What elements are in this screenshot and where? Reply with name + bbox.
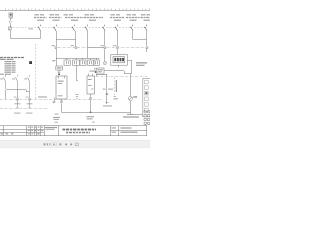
feeder 1 labels <box>35 14 40 15</box>
wire VFD down <box>90 94 92 112</box>
feeder 6 labels <box>111 14 116 15</box>
breaker QF2 <box>53 25 56 31</box>
switch Q0 <box>9 19 12 24</box>
feeder 7 labels <box>127 14 132 15</box>
feeder 4-5 labels <box>85 14 90 15</box>
lamp H2 <box>94 68 96 70</box>
bus label <box>103 105 112 106</box>
breaker QF8 <box>144 25 147 31</box>
contact column 1 <box>4 75 6 89</box>
terminal X1:4 <box>116 47 118 49</box>
terminal X1 on dash <box>55 47 148 65</box>
control box K1 <box>56 66 63 70</box>
mid labels <box>38 96 47 97</box>
aux box K5 <box>97 68 104 74</box>
left list block <box>0 58 24 75</box>
supply icon box <box>9 13 13 19</box>
center cluster <box>52 49 131 112</box>
relay K1a <box>64 60 70 65</box>
wire 107 end ticks <box>106 94 109 103</box>
motor M1 <box>128 96 132 100</box>
left columns contacts <box>0 75 47 114</box>
feeder 2 labels <box>50 14 55 15</box>
right device box <box>143 78 152 117</box>
ruler ticks <box>6 8 150 10</box>
feeder 3 labels <box>64 14 69 15</box>
contact column 3 <box>28 75 30 92</box>
bottom bus <box>62 112 131 114</box>
mech linkage dashes <box>13 27 144 29</box>
terminal X1:3 <box>104 47 106 49</box>
breaker QF7 <box>130 25 133 31</box>
bottom labels <box>53 114 139 123</box>
ruler zone digits <box>9 9 147 10</box>
dark box texts <box>136 62 147 65</box>
cable arrows <box>17 101 31 108</box>
wire feeder2 down <box>56 49 58 66</box>
junction dot <box>58 73 60 75</box>
wires cluster lower <box>75 65 131 104</box>
feeder labels <box>34 14 150 21</box>
dashed vertical sensor line <box>114 77 116 96</box>
terminal X1:5 <box>146 47 148 49</box>
terminal below PSU <box>60 101 62 103</box>
transposition wires <box>6 88 30 99</box>
contact column 2 <box>16 75 18 90</box>
black dot marker <box>29 61 32 64</box>
toolbar <box>0 140 150 147</box>
lower dashed lines <box>0 99 102 101</box>
motor branch <box>96 74 148 116</box>
relay K1b <box>73 60 80 65</box>
breaker QF4 <box>85 25 88 31</box>
terminal ref labels <box>29 28 117 46</box>
title block <box>0 126 147 136</box>
dashed vertical left <box>35 44 37 99</box>
terminal labels <box>14 97 33 105</box>
breaker QF6 <box>115 25 118 31</box>
border ruler line <box>0 10 150 12</box>
spare terminal left <box>53 98 55 104</box>
spare lamp E3 <box>103 49 106 64</box>
wires below breakers <box>56 31 147 58</box>
logo box <box>144 110 150 124</box>
relay K3 <box>88 60 94 65</box>
terminals on lower dash <box>16 98 30 100</box>
X2 wire labels <box>103 89 106 90</box>
breaker QF5 <box>102 25 105 31</box>
breaker QF3 <box>72 25 75 31</box>
relay row label <box>52 60 55 61</box>
cable labels <box>14 113 33 114</box>
relay K4 <box>94 60 100 65</box>
motor label x4 <box>133 96 137 98</box>
motor wire <box>131 74 144 116</box>
title block texts <box>1 127 138 135</box>
terminal X1:2 <box>75 47 77 49</box>
breaker QF1 <box>38 25 41 31</box>
enclosure dashed line right <box>96 76 148 78</box>
breaker symbols row <box>38 25 147 31</box>
lamp H1 <box>58 71 60 73</box>
VFD box U2 <box>90 71 95 72</box>
terminal below VFD <box>89 97 91 99</box>
PSU box U1 <box>56 76 67 99</box>
feeder 8 labels <box>141 14 146 15</box>
relay K2 <box>80 60 86 65</box>
wires dark box <box>118 49 132 73</box>
dark connector box <box>111 55 128 66</box>
fuse F0 <box>8 26 11 30</box>
relay feed bus <box>56 58 100 60</box>
wire PSU down <box>61 99 63 112</box>
enclosure dashed line mid <box>58 47 148 49</box>
wire incomer down <box>11 24 41 39</box>
terminal X1:1 <box>55 47 57 49</box>
